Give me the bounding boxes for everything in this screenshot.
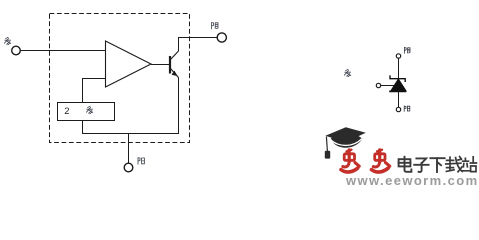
logo: 虫 first character (341, 150, 359, 172)
logo: graduation cap board (325, 127, 365, 142)
wire: block output down (82, 121, 84, 135)
wire: op-amp output to transistor base (151, 64, 169, 66)
TL431 D1: reference pin circle (376, 83, 380, 87)
svg-text:www.eeworm.com: www.eeworm.com (345, 173, 479, 188)
node ANODE terminal (124, 163, 133, 172)
logo: cap white crescent (331, 138, 363, 145)
transistor Q1 emitter stroke with arrow (171, 69, 179, 78)
wire: REF terminal to op-amp + input (20, 50, 105, 52)
label 参 (inside block) (86, 106, 92, 114)
transistor Q1 collector stroke (171, 51, 179, 60)
wire: collector up and to cathode terminal (179, 38, 218, 52)
block reference cell box "2 参" (58, 103, 115, 121)
logo: 载 (446, 157, 462, 172)
node cathode pin circle (right symbol) (396, 54, 400, 58)
label 阴 (right symbol cathode) (404, 47, 410, 53)
logo: 子 (414, 158, 428, 172)
logo: 电 (399, 157, 412, 172)
wire: cathode up (398, 59, 400, 79)
label 参 (right symbol reference) (344, 69, 350, 77)
node REF terminal (12, 46, 21, 55)
TL431 D1: filled triangle with base bar (389, 79, 406, 91)
svg-text:2: 2 (64, 106, 69, 117)
TL431 D1: cathode bar (zener style) (390, 75, 405, 82)
wire: anode down (398, 91, 400, 107)
wire: emitter down to bottom rail (178, 78, 180, 135)
label 阳 (right symbol anode) (404, 106, 410, 111)
label 阴 (cathode, top right terminal) (212, 22, 218, 29)
label 阳 (anode, bottom terminal) (138, 158, 144, 165)
logo: 虫 second character (372, 150, 390, 172)
logo: 站 (462, 157, 477, 172)
label 参 (reference, left terminal) (4, 37, 10, 45)
logo: graduation cap band (331, 135, 363, 148)
wire: op-amp inverting input stub (83, 79, 106, 103)
node anode pin circle (right symbol) (396, 107, 400, 111)
node CATHODE terminal (217, 33, 226, 42)
dashed box U1 internal boundary (50, 14, 190, 143)
transistor Q1 base bar (169, 56, 171, 74)
logo: 下 (430, 158, 444, 172)
op-amp U2 (106, 41, 152, 87)
wire: reference pin to triangle (381, 85, 394, 87)
wire: anode drop (128, 134, 130, 164)
logo: cap tassel (325, 136, 330, 158)
wire: bottom rail (82, 133, 179, 135)
